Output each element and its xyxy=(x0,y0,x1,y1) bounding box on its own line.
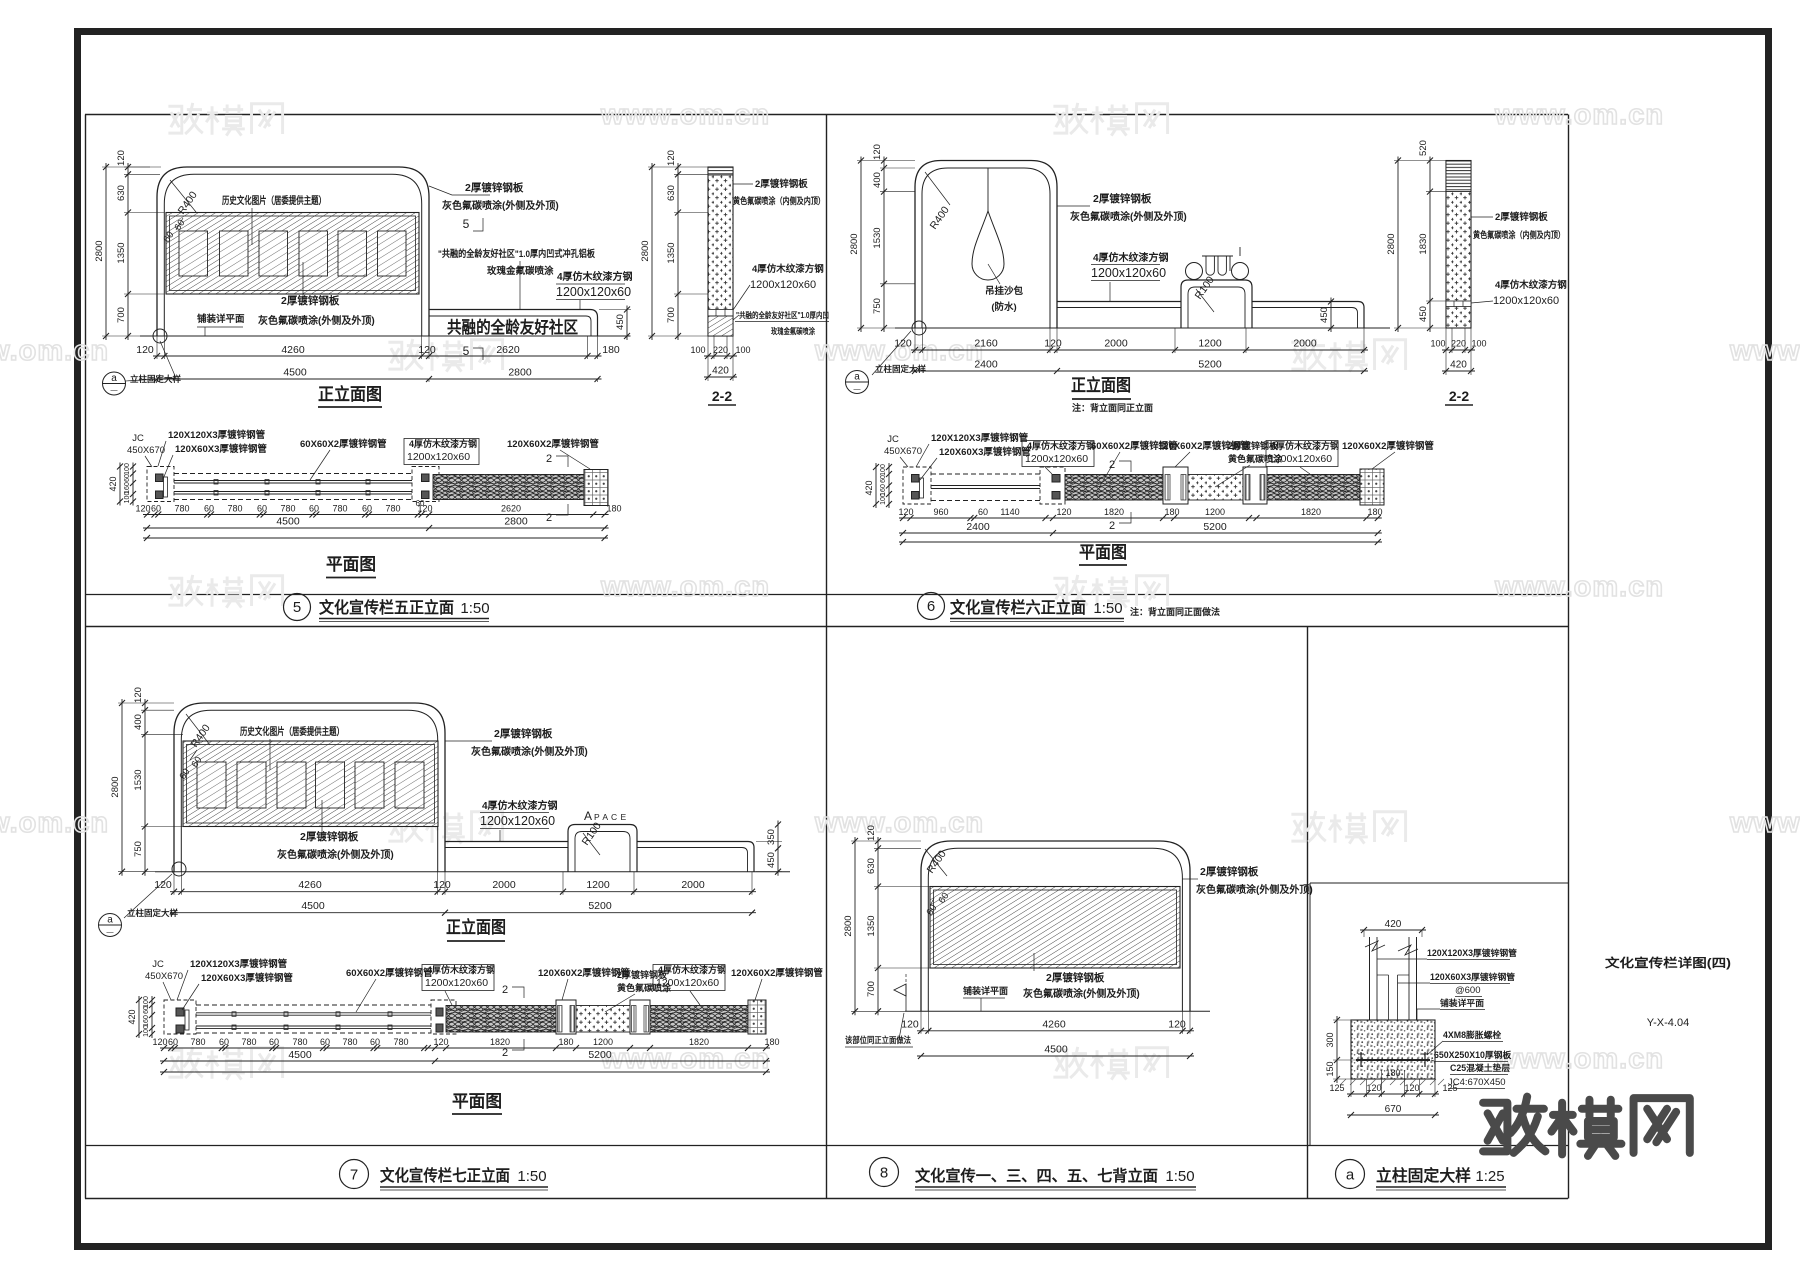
plan 6 mid block xyxy=(1040,467,1065,504)
svg-text:注：背立面同正面做法: 注：背立面同正面做法 xyxy=(1130,606,1220,617)
svg-text:玫瑰金氟碳喷涂: 玫瑰金氟碳喷涂 xyxy=(771,326,816,336)
detail 8 label row xyxy=(870,1158,899,1187)
detail 7 bench rail xyxy=(445,841,568,843)
svg-text:100: 100 xyxy=(880,464,887,476)
svg-text:670: 670 xyxy=(1385,1104,1402,1115)
svg-text:60: 60 xyxy=(269,1037,279,1047)
section 2-2 (5) top cap xyxy=(708,167,733,175)
svg-text:1:25: 1:25 xyxy=(1475,1168,1504,1185)
svg-text:玫瑰金氟碳喷涂: 玫瑰金氟碳喷涂 xyxy=(487,265,554,277)
svg-text:1820: 1820 xyxy=(1301,507,1321,517)
plan 5 left dims xyxy=(119,463,121,506)
detail 7 right dims 450/350 xyxy=(777,821,779,876)
svg-text:60: 60 xyxy=(168,1037,178,1047)
svg-text:1820: 1820 xyxy=(490,1037,510,1047)
detail 6 low rail left segment xyxy=(1057,301,1181,303)
svg-text:400: 400 xyxy=(133,714,144,730)
svg-text:www.om.cn: www.om.cn xyxy=(600,571,770,603)
svg-text:2: 2 xyxy=(1109,520,1115,532)
svg-text:2-2: 2-2 xyxy=(712,388,732,404)
section 2-2 (6) ext lines xyxy=(1445,328,1447,375)
svg-text:JC4:670X450: JC4:670X450 xyxy=(1448,1077,1506,1088)
detail a top dim 420 xyxy=(1360,929,1426,931)
svg-text:120: 120 xyxy=(433,879,451,891)
svg-text:4500: 4500 xyxy=(1044,1044,1068,1056)
svg-text:黄色氟碳喷涂（内侧及内顶）: 黄色氟碳喷涂（内侧及内顶） xyxy=(1473,229,1565,240)
svg-text:a: a xyxy=(107,915,113,926)
detail 6 ground line xyxy=(895,327,1390,329)
svg-text:—: — xyxy=(111,388,118,395)
svg-text:125: 125 xyxy=(1329,1083,1344,1093)
plan 7 rail connector posts xyxy=(232,1012,236,1017)
plan 6 left dims xyxy=(875,463,877,508)
big dark watermark logo xyxy=(1483,1097,1690,1156)
svg-text:5200: 5200 xyxy=(1203,521,1227,533)
svg-text:1200: 1200 xyxy=(1205,507,1225,517)
svg-text:300: 300 xyxy=(1325,1032,1335,1047)
svg-text:4厚仿木纹漆方钢: 4厚仿木纹漆方钢 xyxy=(1271,440,1339,451)
svg-text:1140: 1140 xyxy=(1000,507,1019,517)
svg-text:650X250X10厚钢板: 650X250X10厚钢板 xyxy=(1434,1049,1511,1060)
svg-text:4500: 4500 xyxy=(288,1049,312,1061)
svg-text:450: 450 xyxy=(615,314,626,330)
detail-a box left xyxy=(1309,883,1311,1146)
plan 6 block3 xyxy=(1243,467,1267,504)
svg-text:2400: 2400 xyxy=(974,359,998,371)
svg-text:灰色氟碳喷涂(外侧及外顶): 灰色氟碳喷涂(外侧及外顶) xyxy=(1023,987,1140,1000)
svg-text:120: 120 xyxy=(666,150,677,166)
svg-text:4厚仿木纹漆方钢: 4厚仿木纹漆方钢 xyxy=(409,438,477,449)
svg-text:120: 120 xyxy=(152,1037,167,1047)
detail a left dims 300/150 xyxy=(1336,1016,1338,1083)
svg-text:1200: 1200 xyxy=(593,1037,613,1047)
panel grid divider between halves xyxy=(85,626,1568,628)
svg-text:5: 5 xyxy=(293,599,301,616)
svg-text:2000: 2000 xyxy=(1104,338,1128,350)
svg-text:120: 120 xyxy=(1404,1083,1419,1093)
svg-text:4厚仿木纹漆方钢: 4厚仿木纹漆方钢 xyxy=(1093,251,1169,264)
svg-text:1530: 1530 xyxy=(872,227,883,248)
detail 8 elevation outer frame tube xyxy=(921,841,1190,1011)
svg-text:www.om.cn: www.om.cn xyxy=(1494,99,1664,131)
svg-text:780: 780 xyxy=(385,504,400,514)
plan 7 dim row3 xyxy=(160,1071,770,1073)
svg-text:180: 180 xyxy=(602,344,620,356)
svg-text:文化宣传栏六正立面: 文化宣传栏六正立面 xyxy=(950,598,1086,617)
svg-text:630: 630 xyxy=(866,858,877,874)
svg-text:4厚仿木纹漆方钢: 4厚仿木纹漆方钢 xyxy=(1495,279,1567,291)
svg-text:1:50: 1:50 xyxy=(1093,600,1122,617)
detail a post break symbol xyxy=(1365,941,1418,955)
svg-text:1200x120x60: 1200x120x60 xyxy=(425,977,488,989)
plan 7 rails xyxy=(196,1004,431,1006)
detail 6 low rail right segment xyxy=(1252,302,1364,329)
plan 7 left dims xyxy=(138,996,140,1038)
svg-text:2厚镀锌钢板: 2厚镀锌钢板 xyxy=(1495,211,1548,223)
svg-text:注：背立面同正立面: 注：背立面同正立面 xyxy=(1072,402,1153,413)
svg-text:5200: 5200 xyxy=(1198,359,1222,371)
detail 6 coil toy on box xyxy=(1186,263,1203,280)
svg-text:180: 180 xyxy=(606,504,621,514)
svg-text:www.om.cn: www.om.cn xyxy=(0,807,109,839)
detail 8 paving flag xyxy=(905,984,907,1011)
svg-text:1200x120x60: 1200x120x60 xyxy=(1025,453,1088,465)
svg-text:1820: 1820 xyxy=(1104,507,1124,517)
svg-text:4260: 4260 xyxy=(298,879,322,891)
detail 6 bottom dim row2 xyxy=(911,370,1368,372)
svg-text:正立面图: 正立面图 xyxy=(1071,375,1131,395)
svg-text:4厚仿木纹漆方钢: 4厚仿木纹漆方钢 xyxy=(1027,440,1095,451)
svg-text:100: 100 xyxy=(143,1025,150,1037)
svg-text:220: 220 xyxy=(1451,339,1466,349)
detail 7 bottom dim row1 xyxy=(170,891,756,893)
svg-text:450: 450 xyxy=(1418,306,1429,322)
svg-text:5200: 5200 xyxy=(588,900,612,912)
detail 5 elevation outer frame tube xyxy=(157,167,429,336)
svg-text:1:50: 1:50 xyxy=(460,600,489,617)
svg-text:www.om.cn: www.om.cn xyxy=(1494,1043,1664,1075)
svg-text:120: 120 xyxy=(894,338,912,350)
svg-text:1200x120x60: 1200x120x60 xyxy=(1269,453,1332,465)
svg-text:450: 450 xyxy=(766,852,777,868)
svg-text:2厚镀锌钢板: 2厚镀锌钢板 xyxy=(1093,192,1152,205)
plan 6 dim row1 xyxy=(899,517,1382,519)
detail a base plate 650X250X10 xyxy=(1356,1059,1430,1061)
svg-text:A: A xyxy=(584,809,592,823)
detail 7 base circle xyxy=(172,862,186,876)
section 2-2 (5) rail band xyxy=(708,310,733,317)
svg-text:"共融的全龄友好社区"1.0厚内凹: "共融的全龄友好社区"1.0厚内凹 xyxy=(736,310,829,320)
plan 7 dotted strip xyxy=(576,1006,630,1033)
svg-text:该部位同正立面做法: 该部位同正立面做法 xyxy=(845,1035,911,1045)
svg-text:灰色氟碳喷涂(外侧及外顶): 灰色氟碳喷涂(外侧及外顶) xyxy=(471,745,588,758)
svg-text:历史文化图片（居委提供主题）: 历史文化图片（居委提供主题） xyxy=(240,725,344,738)
svg-text:铺装详平面: 铺装详平面 xyxy=(963,985,1008,996)
svg-text:2400: 2400 xyxy=(966,521,990,533)
svg-text:120: 120 xyxy=(872,144,883,160)
svg-text:Y-X-4.04: Y-X-4.04 xyxy=(1647,1017,1689,1029)
svg-text:750: 750 xyxy=(133,841,144,857)
plan 7 dim row2 xyxy=(160,1060,770,1062)
svg-text:120: 120 xyxy=(1056,507,1071,517)
section 2-2 (6) left dim chain xyxy=(1429,157,1431,333)
plan 6 block2 xyxy=(1163,467,1188,504)
svg-text:60: 60 xyxy=(204,504,214,514)
svg-text:100: 100 xyxy=(1471,339,1486,349)
svg-text:700: 700 xyxy=(666,307,677,323)
svg-text:a: a xyxy=(854,372,860,383)
svg-text:1200: 1200 xyxy=(1198,338,1222,350)
detail 7 six picture windows xyxy=(197,762,226,808)
svg-text:120X60X3厚镀锌钢管: 120X60X3厚镀锌钢管 xyxy=(939,446,1031,458)
svg-text:780: 780 xyxy=(292,1037,307,1047)
svg-text:2800: 2800 xyxy=(849,233,860,254)
svg-text:7: 7 xyxy=(350,1167,358,1184)
detail 6 rail dim 450 xyxy=(1330,298,1332,333)
svg-text:120: 120 xyxy=(1168,1019,1186,1031)
svg-text:60: 60 xyxy=(124,474,131,482)
svg-text:1200x120x60: 1200x120x60 xyxy=(1091,266,1166,280)
panel grid title strip top (upper half) xyxy=(85,594,1568,596)
detail 6 raised game box R100 xyxy=(1181,280,1252,328)
svg-text:60: 60 xyxy=(143,1006,150,1014)
svg-text:立柱固定大样: 立柱固定大样 xyxy=(875,364,927,374)
detail 6 hanging sandbag teardrop xyxy=(987,168,989,211)
svg-text:平面图: 平面图 xyxy=(326,555,376,574)
plan 7 end block xyxy=(748,1000,766,1034)
svg-text:www.om.cn: www.om.cn xyxy=(1729,335,1800,367)
svg-text:www.om.cn: www.om.cn xyxy=(814,807,984,839)
svg-text:2160: 2160 xyxy=(974,338,998,350)
plan 6 dim row3 xyxy=(899,541,1382,543)
detail 6 datum bubble a xyxy=(846,371,869,394)
svg-text:780: 780 xyxy=(241,1037,256,1047)
svg-text:120: 120 xyxy=(418,344,436,356)
section 2-2 (6) bottom dims xyxy=(1442,349,1475,351)
svg-text:JC: JC xyxy=(132,433,144,444)
svg-text:120: 120 xyxy=(116,150,127,166)
detail 5 bench rail 1200x120x60 xyxy=(429,310,598,337)
svg-text:420: 420 xyxy=(108,476,118,491)
svg-text:www.om.cn: www.om.cn xyxy=(1494,571,1664,603)
svg-text:2800: 2800 xyxy=(110,776,121,797)
svg-text:180: 180 xyxy=(764,1037,779,1047)
svg-text:2620: 2620 xyxy=(501,504,521,514)
panel grid left edge xyxy=(85,115,87,1199)
section 2-2 (5) bottom dims 100/220/100 xyxy=(704,355,737,357)
svg-text:100: 100 xyxy=(143,996,150,1008)
svg-text:1200x120x60: 1200x120x60 xyxy=(480,814,555,828)
svg-text:2620: 2620 xyxy=(496,344,520,356)
svg-text:120X120X3厚镀锌钢管: 120X120X3厚镀锌钢管 xyxy=(168,429,266,441)
panel grid title strip top (lower half) xyxy=(85,1145,1568,1147)
svg-text:平面图: 平面图 xyxy=(1079,543,1127,562)
detail 7 left dim chain xyxy=(144,699,146,876)
svg-text:60: 60 xyxy=(309,504,319,514)
svg-text:60X60X2厚镀锌钢管: 60X60X2厚镀锌钢管 xyxy=(346,967,433,979)
svg-text:1200x120x60: 1200x120x60 xyxy=(750,279,816,291)
svg-text:780: 780 xyxy=(280,504,295,514)
svg-text:吊挂沙包: 吊挂沙包 xyxy=(985,285,1024,297)
svg-text:120X120X3厚镀锌钢管: 120X120X3厚镀锌钢管 xyxy=(1427,947,1517,958)
svg-text:450X670: 450X670 xyxy=(145,971,183,982)
svg-text:8: 8 xyxy=(880,1165,888,1182)
detail 5 left dim chain 120/630/1350/700 xyxy=(127,163,129,340)
svg-text:2000: 2000 xyxy=(681,879,705,891)
section 2-2 (6) strip body xyxy=(1446,161,1471,329)
svg-text:4500: 4500 xyxy=(301,900,325,912)
svg-text:180: 180 xyxy=(1367,507,1382,517)
svg-text:"共融的全龄友好社区"1.0厚内凹式冲孔铝板: "共融的全龄友好社区"1.0厚内凹式冲孔铝板 xyxy=(438,248,595,260)
svg-text:100: 100 xyxy=(124,463,131,475)
detail 8 bottom dim row2 xyxy=(917,1055,1194,1057)
svg-text:1200: 1200 xyxy=(586,879,610,891)
svg-text:180: 180 xyxy=(1164,507,1179,517)
svg-text:4厚仿木纹漆方钢: 4厚仿木纹漆方钢 xyxy=(427,964,495,975)
svg-text:@600: @600 xyxy=(1455,985,1481,996)
svg-text:780: 780 xyxy=(393,1037,408,1047)
svg-text:120X60X3厚镀锌钢管: 120X60X3厚镀锌钢管 xyxy=(201,972,293,984)
detail a bottom dim 670 xyxy=(1347,1114,1439,1116)
plan 6 base block JC xyxy=(903,467,931,504)
detail 6 label row xyxy=(918,593,945,620)
svg-text:120: 120 xyxy=(901,1019,919,1031)
section 2-2 (6) rail band xyxy=(1446,301,1471,307)
detail 5 bench dim 450 xyxy=(626,306,628,341)
svg-text:120: 120 xyxy=(1044,338,1062,350)
detail 6 left dim chain xyxy=(883,157,885,333)
svg-text:960: 960 xyxy=(933,507,948,517)
svg-text:120X60X2厚镀锌钢管: 120X60X2厚镀锌钢管 xyxy=(507,438,599,450)
svg-text:180: 180 xyxy=(1385,1068,1400,1078)
svg-text:2000: 2000 xyxy=(1293,338,1317,350)
detail a concrete footing xyxy=(1351,1020,1435,1079)
svg-text:2800: 2800 xyxy=(508,367,532,379)
svg-text:2800: 2800 xyxy=(504,516,528,528)
svg-text:1200x120x60: 1200x120x60 xyxy=(1493,295,1559,307)
svg-text:120X120X3厚镀锌钢管: 120X120X3厚镀锌钢管 xyxy=(931,432,1029,444)
svg-text:2厚镀锌钢板: 2厚镀锌钢板 xyxy=(1200,865,1259,878)
svg-text:4厚仿木纹漆方钢: 4厚仿木纹漆方钢 xyxy=(482,799,558,812)
svg-text:1350: 1350 xyxy=(666,242,677,263)
svg-text:灰色氟碳喷涂(外侧及外顶): 灰色氟碳喷涂(外侧及外顶) xyxy=(1196,883,1313,896)
svg-text:420: 420 xyxy=(1450,360,1467,371)
svg-text:700: 700 xyxy=(116,307,127,323)
svg-text:60: 60 xyxy=(880,475,887,483)
svg-text:历史文化图片（居委提供主题）: 历史文化图片（居委提供主题） xyxy=(222,194,326,207)
svg-text:文化宣传栏详图(四): 文化宣传栏详图(四) xyxy=(1605,955,1731,970)
svg-text:4500: 4500 xyxy=(276,516,300,528)
svg-text:www.om.cn: www.om.cn xyxy=(1729,807,1800,839)
svg-text:420: 420 xyxy=(127,1009,137,1024)
section 2-2 (6) top cap 520 xyxy=(1446,161,1471,192)
svg-text:1200x120x60: 1200x120x60 xyxy=(656,977,719,989)
detail 6 arch outer frame tube xyxy=(915,161,1057,329)
svg-text:1350: 1350 xyxy=(866,915,877,936)
plan 7 braid 1 xyxy=(446,1006,556,1033)
detail 5 bottom dim row 120/4260/120/2620/180 xyxy=(153,355,602,357)
section 2-2 (6) chain ext xyxy=(1394,160,1446,162)
svg-text:5200: 5200 xyxy=(588,1049,612,1061)
svg-text:120: 120 xyxy=(135,504,150,514)
svg-text:120: 120 xyxy=(136,344,154,356)
svg-text:700: 700 xyxy=(866,981,877,997)
svg-text:780: 780 xyxy=(190,1037,205,1047)
svg-text:1200x120x60: 1200x120x60 xyxy=(407,451,470,463)
svg-text:2000: 2000 xyxy=(492,879,516,891)
svg-text:平面图: 平面图 xyxy=(452,1092,502,1111)
detail a ground hatch under footing xyxy=(1340,1079,1444,1085)
detail 5 column base circle xyxy=(153,329,167,343)
svg-text:150: 150 xyxy=(1325,1061,1335,1076)
plan 6 dim row2 xyxy=(899,532,1382,534)
svg-text:P A C E: P A C E xyxy=(594,812,627,822)
svg-text:正立面图: 正立面图 xyxy=(318,384,382,404)
svg-text:www.om.cn: www.om.cn xyxy=(0,335,109,367)
detail 5 left overall dim 2800 xyxy=(105,163,107,340)
svg-text:60X60X2厚镀锌钢管: 60X60X2厚镀锌钢管 xyxy=(300,438,387,450)
detail 8 hatched panel xyxy=(930,887,1180,969)
svg-text:2: 2 xyxy=(1109,459,1115,471)
svg-text:2800: 2800 xyxy=(640,240,651,261)
svg-text:2厚镀锌钢板: 2厚镀锌钢板 xyxy=(755,178,808,190)
detail 7 datum bubble a xyxy=(99,914,122,937)
svg-text:2800: 2800 xyxy=(1386,233,1397,254)
plan 6 rails dashed xyxy=(931,473,1040,475)
svg-text:6: 6 xyxy=(927,598,935,615)
plan 5 mid block xyxy=(412,467,439,502)
detail 7 label row xyxy=(340,1160,369,1189)
plan 6 end block xyxy=(1360,469,1384,505)
plan 5 wood braid strip xyxy=(433,475,584,500)
svg-text:120: 120 xyxy=(1366,1083,1381,1093)
detail 5 ground line xyxy=(140,335,630,337)
svg-text:灰色氟碳喷涂(外侧及外顶): 灰色氟碳喷涂(外侧及外顶) xyxy=(277,848,394,861)
svg-text:60: 60 xyxy=(320,1037,330,1047)
svg-text:120X60X2厚镀锌钢管: 120X60X2厚镀锌钢管 xyxy=(731,967,823,979)
svg-text:120: 120 xyxy=(433,1037,448,1047)
section 2-2 (5) strip body xyxy=(708,167,733,336)
section 2-2 (5) ext lines xyxy=(707,336,709,381)
svg-text:780: 780 xyxy=(227,504,242,514)
svg-text:灰色氟碳喷涂(外侧及外顶): 灰色氟碳喷涂(外侧及外顶) xyxy=(442,199,559,212)
plan 5 rails xyxy=(174,473,412,475)
panel grid right edge xyxy=(1568,115,1570,1199)
svg-text:正立面图: 正立面图 xyxy=(446,917,506,937)
svg-text:4厚仿木纹漆方钢: 4厚仿木纹漆方钢 xyxy=(557,270,633,283)
panel grid bottom edge xyxy=(85,1198,1568,1200)
svg-text:1:50: 1:50 xyxy=(517,1168,546,1185)
svg-text:120: 120 xyxy=(866,825,877,841)
svg-text:立柱固定大样: 立柱固定大样 xyxy=(127,908,179,918)
svg-text:120: 120 xyxy=(898,507,913,517)
svg-text:灰色氟碳喷涂(外侧及外顶): 灰色氟碳喷涂(外侧及外顶) xyxy=(258,314,375,327)
panel grid vertical divider xyxy=(826,115,828,1199)
svg-text:120X60X3厚镀锌钢管: 120X60X3厚镀锌钢管 xyxy=(175,443,267,455)
svg-text:120: 120 xyxy=(154,879,172,891)
svg-text:4厚仿木纹漆方钢: 4厚仿木纹漆方钢 xyxy=(752,263,824,275)
detail 6 chain extensions xyxy=(857,160,915,162)
detail 5 display panel hatched band xyxy=(166,213,419,295)
detail 8 bottom dim row1 xyxy=(917,1030,1194,1032)
svg-text:2: 2 xyxy=(546,453,552,465)
detail 5 six picture windows xyxy=(179,231,208,276)
svg-text:2: 2 xyxy=(502,1047,508,1059)
plan 5 base anchor block JC xyxy=(147,467,174,502)
svg-text:350: 350 xyxy=(766,829,777,845)
plan 5 end block xyxy=(584,470,608,506)
svg-text:文化宣传栏五正立面: 文化宣传栏五正立面 xyxy=(319,598,454,617)
svg-text:www.om.cn: www.om.cn xyxy=(600,99,770,131)
svg-text:60: 60 xyxy=(257,504,267,514)
svg-text:2厚镀锌钢板: 2厚镀锌钢板 xyxy=(494,727,553,740)
section 2-2 (5) left dim chain xyxy=(677,163,679,340)
detail 5 datum bubble a xyxy=(103,372,126,395)
detail 8 chain ext xyxy=(851,840,921,842)
svg-text:文化宣传栏七正立面: 文化宣传栏七正立面 xyxy=(380,1166,510,1185)
panel grid divider detail-8/detail-a xyxy=(1307,627,1309,1199)
svg-text:2-2: 2-2 xyxy=(1449,388,1469,404)
svg-text:1:50: 1:50 xyxy=(1165,1168,1194,1185)
svg-text:400: 400 xyxy=(872,172,883,188)
svg-text:2厚镀锌钢板: 2厚镀锌钢板 xyxy=(465,181,524,194)
svg-text:630: 630 xyxy=(116,185,127,201)
detail 6 bottom dim row1 xyxy=(911,349,1368,351)
detail 5 dim extensions to row2 xyxy=(156,379,158,382)
svg-text:60: 60 xyxy=(151,504,161,514)
plan 5 dim row1 xyxy=(143,514,609,516)
svg-text:160: 160 xyxy=(143,1015,150,1027)
